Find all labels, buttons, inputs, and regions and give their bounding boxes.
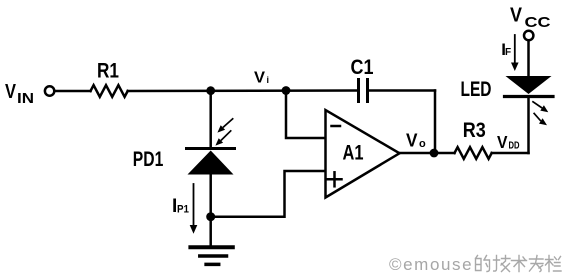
svg-text:©emouse: ©emouse bbox=[389, 255, 473, 274]
node ground junction bbox=[206, 212, 215, 221]
svg-text:CC: CC bbox=[525, 14, 551, 31]
wire inverting input bbox=[286, 91, 326, 139]
node junction PD1 bbox=[206, 86, 215, 95]
op-amp A1 bbox=[326, 110, 400, 198]
PD1 light arrow lower bbox=[215, 130, 231, 145]
char LAN bbox=[546, 256, 562, 272]
svg-text:P1: P1 bbox=[177, 204, 189, 216]
ground bbox=[190, 247, 232, 264]
node Vi bbox=[282, 86, 291, 95]
svg-text:i: i bbox=[267, 75, 270, 85]
label R1 bbox=[97, 60, 119, 83]
svg-text:R1: R1 bbox=[97, 60, 119, 83]
label IP1 bbox=[172, 196, 189, 217]
wire LED cathode bbox=[527, 97, 530, 153]
wire junction to PD1 bbox=[209, 91, 212, 149]
current arrow IF bbox=[511, 35, 519, 71]
char SHU bbox=[512, 256, 527, 272]
label VDD bbox=[497, 132, 520, 152]
watermark bbox=[389, 255, 473, 274]
svg-text:PD1: PD1 bbox=[133, 148, 164, 171]
LED light arrow lower bbox=[534, 113, 547, 125]
photodiode PD1 bbox=[187, 149, 235, 175]
capacitor C1 bbox=[359, 80, 368, 102]
current arrow IP1 bbox=[190, 184, 198, 234]
wire noninverting input bbox=[211, 171, 326, 217]
resistor R1 bbox=[91, 85, 128, 97]
char DE bbox=[476, 256, 490, 272]
svg-text:V: V bbox=[510, 5, 523, 27]
watermark CJK glyphs bbox=[476, 256, 562, 272]
wire output bbox=[400, 152, 455, 155]
svg-text:V: V bbox=[254, 70, 265, 87]
terminal VCC bbox=[524, 31, 533, 40]
wire bbox=[55, 90, 91, 93]
label C1 bbox=[351, 56, 374, 79]
label PD1 bbox=[133, 148, 164, 171]
label IF bbox=[501, 40, 511, 59]
svg-text:R3: R3 bbox=[463, 119, 486, 142]
label R3 bbox=[463, 119, 486, 142]
wire LED anode to VCC bbox=[527, 41, 530, 76]
LED diode bbox=[505, 76, 554, 97]
svg-text:LED: LED bbox=[461, 78, 492, 101]
svg-text:DD: DD bbox=[509, 141, 520, 152]
PD1 light arrow upper bbox=[217, 118, 233, 132]
label VIN bbox=[5, 81, 34, 107]
svg-text:F: F bbox=[505, 47, 511, 58]
terminal VIN bbox=[45, 86, 54, 95]
char ZHUAN bbox=[530, 256, 544, 272]
LED light arrow upper bbox=[532, 101, 548, 112]
label Vi bbox=[254, 70, 269, 87]
wire bbox=[128, 89, 357, 92]
wire PD1 anode down bbox=[209, 175, 212, 217]
wire bbox=[492, 152, 529, 155]
svg-text:V: V bbox=[5, 81, 17, 103]
svg-text:o: o bbox=[419, 138, 426, 150]
svg-text:A1: A1 bbox=[343, 142, 364, 165]
wire bbox=[368, 89, 436, 92]
svg-text:C1: C1 bbox=[351, 56, 374, 79]
node VO bbox=[430, 149, 439, 158]
char JI bbox=[494, 256, 511, 272]
svg-text:V: V bbox=[497, 132, 508, 152]
wire to ground bbox=[209, 217, 212, 246]
svg-text:V: V bbox=[406, 131, 418, 151]
resistor R3 bbox=[455, 147, 492, 159]
svg-text:IN: IN bbox=[17, 91, 34, 107]
label LED bbox=[461, 78, 492, 101]
label VCC bbox=[510, 5, 551, 32]
label VO bbox=[406, 131, 426, 151]
wire feedback drop bbox=[434, 91, 437, 154]
